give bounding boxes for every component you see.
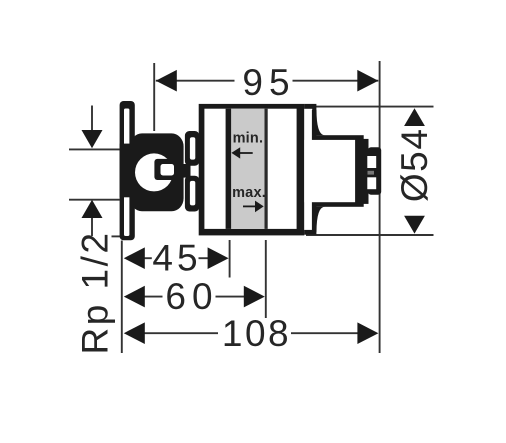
dimension line 108 left segment — [144, 332, 218, 334]
dimension line 108 right segment — [291, 332, 358, 334]
dimension line 60 left segment — [144, 296, 163, 298]
coupler upper tab — [185, 131, 200, 166]
max arrowhead pointing right — [255, 201, 264, 213]
svg-text:45: 45 — [152, 238, 201, 279]
arrowhead upper port pointing down — [82, 130, 103, 148]
svg-text:max.: max. — [232, 185, 266, 201]
valve bore circle — [135, 153, 173, 191]
spindle step ring — [363, 139, 369, 204]
leader dash of Rp 1/2 — [112, 235, 123, 237]
spindle mid groove — [368, 171, 375, 175]
coupler upper tab slot — [190, 137, 195, 159]
stem of lower port arrow — [91, 218, 93, 236]
valve nut overlap on flange — [120, 144, 135, 198]
partition thick line min plane — [226, 109, 232, 229]
svg-text:4: 4 — [394, 129, 435, 150]
arrowhead 108 right — [357, 322, 378, 344]
extension line right shared by dim 95 and dim 108 — [379, 61, 381, 353]
svg-text:5: 5 — [394, 151, 435, 172]
valve body nut — [130, 133, 184, 211]
extension line 45 min plane — [229, 240, 231, 278]
dimension line 95 right segment — [293, 80, 379, 82]
extension line diameter 54 top — [315, 106, 434, 108]
dimension line 60 right segment — [216, 296, 245, 298]
arrowhead 60 right — [244, 286, 265, 308]
extension line 60 max plane — [265, 240, 267, 318]
spindle spline notch lower — [367, 177, 376, 189]
arrowhead lower port pointing up — [82, 200, 103, 218]
min arrowhead pointing left — [231, 147, 240, 158]
arrowhead diameter 54 down — [404, 216, 425, 234]
port reference line lower — [69, 199, 120, 201]
adjustment range band — [231, 109, 265, 229]
arrowhead 95 right — [357, 70, 378, 92]
arrowhead 108 left — [124, 322, 145, 344]
max arrow line — [243, 205, 256, 207]
spindle spline notch upper — [367, 156, 376, 168]
svg-text:60: 60 — [165, 276, 218, 317]
bonnet neck interior — [304, 140, 355, 202]
bonnet fillet top — [312, 110, 325, 135]
dimension line 45 right segment — [199, 257, 209, 259]
arrowhead 60 left — [124, 286, 145, 308]
valve stop lug slot — [161, 164, 175, 176]
coupler lower tab — [185, 176, 200, 212]
svg-text:min.: min. — [233, 131, 264, 147]
extension line left of dim 95 — [153, 63, 155, 131]
stem of upper port arrow — [91, 106, 93, 131]
svg-text:95: 95 — [242, 62, 295, 103]
coupler middle bar — [180, 164, 191, 178]
wall flange plate slot — [124, 109, 129, 237]
min arrow line — [240, 152, 253, 154]
baseline extension line wall plane — [121, 241, 123, 354]
bonnet neck — [312, 135, 364, 207]
arrowhead 95 left — [156, 70, 177, 92]
svg-text:Ø: Ø — [394, 173, 435, 202]
arrowhead 45 left — [124, 247, 145, 269]
housing outer shell — [199, 104, 305, 236]
svg-text:108: 108 — [222, 313, 291, 354]
collar ring interior — [304, 109, 312, 230]
arrowhead 45 right — [208, 247, 229, 269]
dimension line 95 left segment — [156, 80, 235, 82]
port reference line upper — [69, 148, 120, 150]
dimension line 45 left segment — [144, 257, 152, 259]
coupler lower tab slot — [190, 181, 195, 206]
bonnet fillet bottom — [312, 207, 325, 232]
spindle end block — [368, 147, 381, 195]
extension line diameter 54 bottom — [306, 234, 434, 236]
partition thin line max plane — [265, 109, 268, 229]
housing interior — [204, 109, 296, 229]
wall flange plate — [120, 101, 135, 240]
svg-text:Rp 1/2: Rp 1/2 — [75, 230, 116, 354]
valve stop lug — [154, 159, 181, 180]
arrowhead diameter 54 up — [404, 108, 425, 126]
collar ring — [304, 104, 316, 235]
